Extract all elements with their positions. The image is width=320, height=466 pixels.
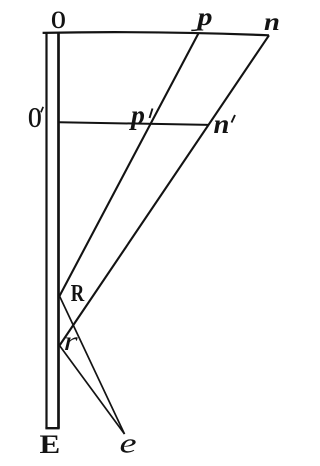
svg-text:n: n xyxy=(214,109,230,140)
svg-text:R: R xyxy=(71,280,85,307)
svg-text:p: p xyxy=(129,100,145,131)
svg-text:O: O xyxy=(51,5,66,33)
svg-text:p: p xyxy=(195,3,212,31)
svg-text:e: e xyxy=(120,428,137,459)
svg-text:E: E xyxy=(40,430,61,460)
svg-text:O: O xyxy=(28,103,42,134)
svg-text:r: r xyxy=(64,326,79,356)
svg-text:n: n xyxy=(264,7,280,35)
